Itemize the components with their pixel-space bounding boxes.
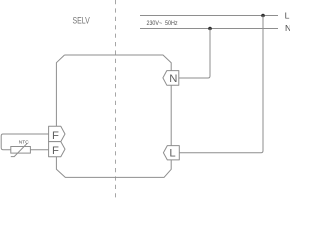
thermistor NTC symbol — [11, 143, 31, 156]
svg-text:NTC: NTC — [19, 140, 29, 146]
terminal F1 — [49, 126, 65, 142]
wire mains N line — [140, 28, 278, 30]
wire NTC to terminal F2 — [30, 149, 48, 151]
wire L line to terminal L — [180, 16, 264, 153]
thermostat body outline — [56, 55, 171, 177]
svg-text:SELV: SELV — [73, 15, 91, 25]
wire terminal F1 to NTC — [1, 134, 48, 150]
svg-text:230V~ 50Hz: 230V~ 50Hz — [147, 20, 178, 27]
junction on L line — [261, 14, 265, 18]
junction on N line — [208, 27, 212, 31]
svg-text:L: L — [285, 10, 290, 20]
svg-text:L: L — [169, 147, 175, 159]
terminal N — [163, 71, 179, 86]
wire mains L line — [140, 15, 278, 17]
svg-text:N: N — [169, 73, 177, 85]
terminal L — [163, 146, 179, 160]
wire N line to terminal N — [179, 29, 210, 79]
svg-text:F: F — [52, 130, 59, 142]
terminal F2 — [49, 142, 65, 157]
svg-text:N: N — [285, 23, 290, 33]
SELV boundary dashed line — [115, 0, 117, 200]
svg-text:F: F — [52, 145, 59, 157]
